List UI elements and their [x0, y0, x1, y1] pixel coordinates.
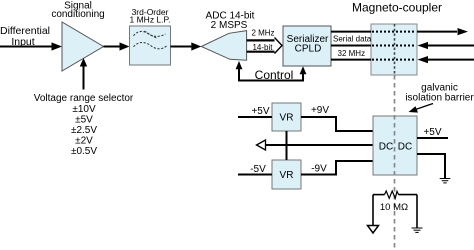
- svg-text:-9V: -9V: [311, 164, 327, 175]
- svg-text:±5V: ±5V: [75, 115, 93, 126]
- wire: 14-bit data line from ADC: [247, 43, 276, 52]
- wire: link between VR1 and VR2: [286, 131, 288, 160]
- svg-text:isolation barrier: isolation barrier: [405, 93, 474, 104]
- wire: +9V from VR1 to DC-DC: [301, 105, 373, 131]
- svg-text:14-bit: 14-bit: [252, 43, 273, 52]
- voltage regulator VR1 (+9V): [272, 103, 301, 131]
- svg-text:Magneto-coupler: Magneto-coupler: [352, 1, 442, 15]
- wire: amplifier output to filter: [104, 42, 130, 50]
- svg-text:32 MHz: 32 MHz: [338, 49, 366, 58]
- svg-text:1 MHz L.P.: 1 MHz L.P.: [130, 15, 171, 25]
- node: galvanic isolation barrier label with pointer arrow: [405, 83, 474, 113]
- wire: control bus between serializer CPLD and ADC: [236, 61, 307, 82]
- svg-text:Serial data: Serial data: [333, 34, 372, 43]
- wire: filter output to ADC: [171, 42, 202, 50]
- svg-text:2 MHz: 2 MHz: [251, 28, 274, 37]
- wire: -9V from VR2 to DC-DC: [301, 161, 373, 175]
- wire: resistor right leg to earth ground: [416, 195, 418, 228]
- wire: serial data input line through magneto-coupler: [331, 42, 474, 49]
- node: Differential Input label: [0, 25, 50, 48]
- svg-text:VR: VR: [280, 170, 294, 181]
- svg-text:10 MΩ: 10 MΩ: [380, 202, 408, 213]
- wire: differential input into amplifier: [0, 42, 62, 50]
- voltage regulator VR2 (-9V): [272, 160, 301, 189]
- node: Voltage range selector label and range values: [34, 93, 134, 157]
- wire: 32 MHz clock line through magneto-coupler: [331, 49, 474, 63]
- svg-text:Voltage range selector: Voltage range selector: [34, 93, 134, 104]
- svg-text:±10V: ±10V: [72, 104, 96, 115]
- svg-text:DC: DC: [398, 142, 412, 153]
- earth ground symbol at DC-DC output: [440, 179, 451, 183]
- wire: resistor left leg to signal ground: [372, 195, 374, 225]
- wire: serial data output line through magneto-coupler: [331, 28, 468, 43]
- op-amp U1 signal conditioning amplifier: [51, 1, 104, 72]
- earth ground symbol at resistor: [412, 228, 423, 232]
- wire: voltage range selector control arrow into amplifier: [80, 58, 87, 90]
- svg-text:2 MSPS: 2 MSPS: [211, 20, 248, 31]
- svg-text:+5V: +5V: [423, 127, 441, 138]
- svg-text:+5V: +5V: [251, 106, 269, 117]
- svg-text:conditioning: conditioning: [51, 9, 104, 20]
- wire: +5V isolated output of DC-DC: [417, 127, 448, 138]
- svg-text:±2.5V: ±2.5V: [71, 125, 97, 136]
- wire: -5V input to VR2: [238, 164, 272, 175]
- serializer CPLD U3: [283, 26, 331, 66]
- wire: return line from DC-DC with open arrow: [257, 140, 374, 150]
- svg-text:±2V: ±2V: [75, 136, 93, 147]
- svg-text:DC: DC: [379, 142, 393, 153]
- galvanic isolation barrier dashed line: [394, 24, 396, 250]
- wire: +5V input to VR1: [238, 106, 272, 117]
- signal ground symbol (open triangle): [368, 226, 379, 234]
- filter F1: 3rd-order 1 MHz low-pass: [130, 7, 171, 65]
- resistor R1 10 Mohm between grounds: [373, 191, 417, 213]
- wire: 2 MHz clock line from ADC: [247, 28, 276, 40]
- bus arrowhead into serializer: [275, 38, 283, 54]
- ADC U2: 14-bit 2 MSPS: [201, 11, 254, 61]
- DC-DC converter module: [373, 116, 417, 175]
- magneto-coupler isolation block: [352, 1, 442, 76]
- svg-text:VR: VR: [280, 113, 294, 124]
- svg-text:Control: Control: [255, 68, 294, 82]
- svg-text:CPLD: CPLD: [295, 44, 322, 55]
- svg-text:-5V: -5V: [250, 164, 266, 175]
- wire: DC-DC output to earth ground: [417, 154, 445, 178]
- svg-text:±0.5V: ±0.5V: [71, 146, 97, 157]
- svg-text:+9V: +9V: [311, 105, 329, 116]
